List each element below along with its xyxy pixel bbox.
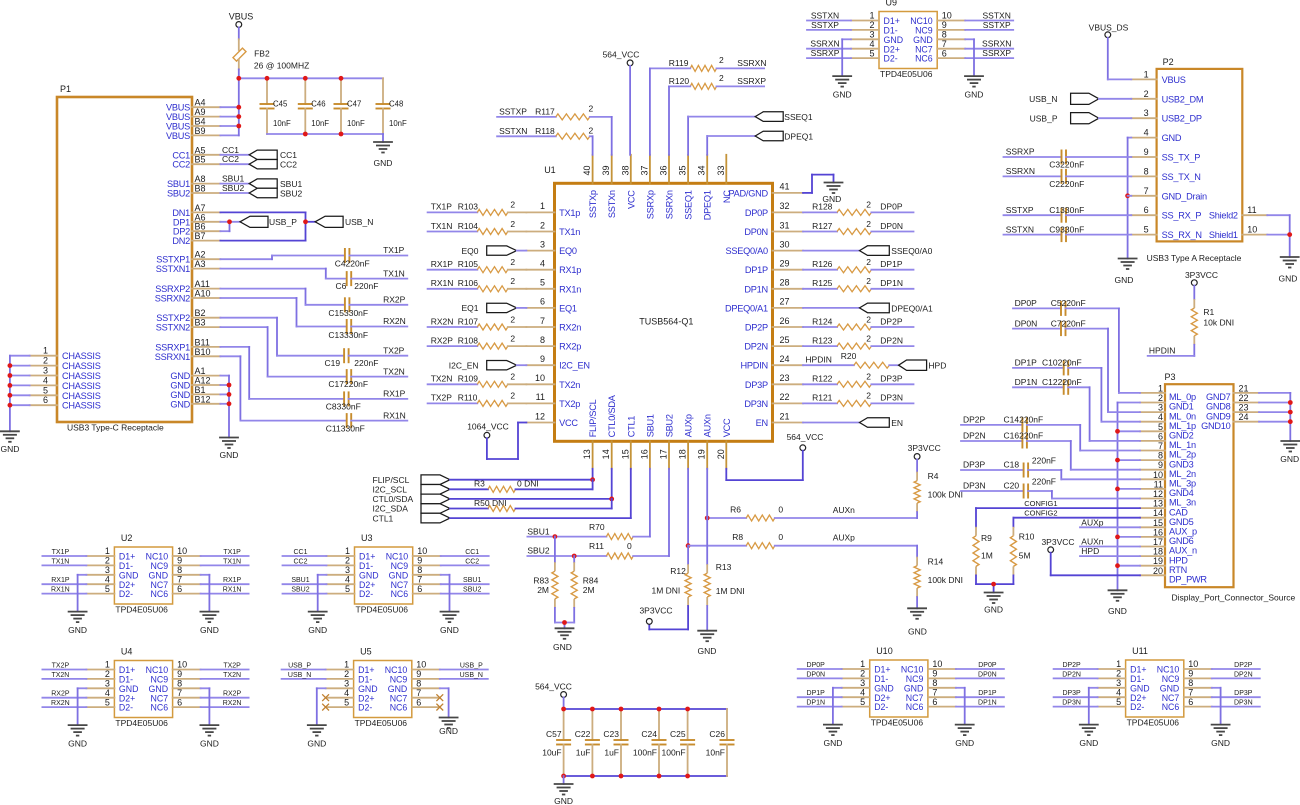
resistor R11 0 net SBU2 <box>589 469 669 559</box>
wire AUXn pin19 down <box>706 469 708 518</box>
svg-text:6: 6 <box>177 697 182 707</box>
resistor R20 net HPDIN to HPD port <box>803 351 899 368</box>
ic U10 TPD4E05U06 body <box>842 646 956 728</box>
wire P2 shields to GND <box>1267 215 1289 257</box>
svg-text:DP2N: DP2N <box>744 342 768 352</box>
svg-text:AUXn: AUXn <box>833 505 855 515</box>
svg-text:VCC: VCC <box>559 418 578 428</box>
svg-text:5: 5 <box>1116 697 1121 707</box>
svg-text:24: 24 <box>780 354 790 364</box>
svg-text:R11: R11 <box>589 541 604 551</box>
svg-text:5: 5 <box>105 697 110 707</box>
svg-text:R119: R119 <box>669 58 689 68</box>
U1 pin 7 RX2n <box>526 316 581 333</box>
ground R9 R10 <box>984 593 1004 615</box>
P1 pin 2 CHASSIS <box>30 356 101 372</box>
wire P2 pin7 GND_Drain <box>1128 195 1132 197</box>
svg-text:RTN: RTN <box>1169 565 1187 575</box>
svg-text:GND: GND <box>0 444 19 454</box>
svg-text:30: 30 <box>780 239 790 249</box>
svg-text:0: 0 <box>778 504 783 514</box>
svg-text:Shield2: Shield2 <box>1209 211 1238 221</box>
svg-text:GND: GND <box>68 739 87 749</box>
svg-text:0 DNI: 0 DNI <box>517 479 539 489</box>
svg-text:GND2: GND2 <box>1169 431 1194 441</box>
svg-text:DP1N: DP1N <box>806 700 825 707</box>
svg-text:DP0N: DP0N <box>880 221 903 231</box>
svg-text:GND: GND <box>965 90 984 100</box>
svg-text:TX1N: TX1N <box>223 558 241 565</box>
svg-text:ML_0n: ML_0n <box>1169 411 1196 421</box>
svg-text:R128: R128 <box>812 202 833 212</box>
svg-text:RX1P: RX1P <box>383 389 406 399</box>
wire U5 pin3 to GND <box>317 688 326 725</box>
svg-text:SSRXN: SSRXN <box>737 58 766 68</box>
port USB_P to P2 <box>1030 113 1132 124</box>
P1 pin B12 GND <box>170 394 220 409</box>
svg-text:SBU2: SBU2 <box>167 189 190 199</box>
svg-text:R83: R83 <box>533 575 549 585</box>
svg-text:D2-: D2- <box>1130 702 1144 712</box>
junction dots chassis bus <box>7 363 12 407</box>
capacitor C23 1uF <box>603 709 628 776</box>
svg-text:CC2: CC2 <box>280 160 297 170</box>
svg-text:TPD4E05U06: TPD4E05U06 <box>115 605 168 615</box>
svg-text:DPEQ1: DPEQ1 <box>703 190 713 220</box>
resistor R123 2 net DP2N <box>803 333 914 349</box>
junction dots P3 GND bus <box>1115 429 1120 568</box>
svg-text:C13330nF: C13330nF <box>328 330 368 340</box>
U1 pin 21 EN <box>756 411 803 428</box>
svg-text:CTL1: CTL1 <box>626 416 636 438</box>
svg-text:GND: GND <box>823 738 842 748</box>
port USB_P <box>240 216 297 227</box>
svg-text:CHASSIS: CHASSIS <box>62 361 101 371</box>
svg-text:SSRXP: SSRXP <box>811 48 840 58</box>
svg-text:USB2_DM: USB2_DM <box>1162 94 1204 104</box>
svg-text:R117: R117 <box>535 107 555 117</box>
svg-text:DP2N: DP2N <box>963 431 986 441</box>
U1 pin 18 AUXp <box>678 414 694 469</box>
P1 pin A1 GND <box>170 366 220 381</box>
capacitor C15 330nF net RX2P <box>220 289 407 318</box>
svg-text:C8330nF: C8330nF <box>326 402 361 412</box>
svg-text:22: 22 <box>780 392 790 402</box>
svg-text:DP0N: DP0N <box>978 671 997 678</box>
resistor R127 2 net DP0N <box>803 219 914 235</box>
svg-text:GND: GND <box>1114 275 1133 285</box>
svg-text:5M: 5M <box>1019 550 1031 560</box>
port HPD <box>899 360 947 371</box>
svg-text:2: 2 <box>719 73 724 83</box>
svg-text:RX1n: RX1n <box>559 284 581 294</box>
svg-text:VBUS: VBUS <box>229 11 254 21</box>
svg-text:HPDIN: HPDIN <box>741 361 768 371</box>
svg-text:NC6: NC6 <box>150 703 168 713</box>
svg-text:14: 14 <box>1153 508 1163 518</box>
svg-text:TX1N: TX1N <box>383 268 405 278</box>
svg-text:C15330nF: C15330nF <box>328 308 368 318</box>
P3 pin 21 GND7 <box>1206 383 1259 402</box>
svg-text:SSRXN2: SSRXN2 <box>155 294 190 304</box>
resistor R103 2 net TX1P <box>428 200 527 216</box>
U2 right net TX1N <box>201 558 249 565</box>
svg-text:6: 6 <box>43 395 48 405</box>
svg-text:13: 13 <box>582 449 592 459</box>
svg-text:HPDIN: HPDIN <box>1149 346 1175 356</box>
svg-text:1M DNI: 1M DNI <box>651 586 680 596</box>
U1 pin 28 DP1N <box>744 278 803 295</box>
P1 pin B8 SBU2 <box>167 184 220 199</box>
svg-text:2: 2 <box>1144 89 1149 99</box>
svg-text:2: 2 <box>866 200 871 210</box>
svg-text:ML_3p: ML_3p <box>1169 479 1196 489</box>
svg-text:GND: GND <box>170 399 190 409</box>
P1 pin B6 DP2 <box>173 222 221 237</box>
capacitor C17 220nF net TX2N <box>220 327 407 389</box>
ic U9 TPD4E05U06 body <box>851 0 965 79</box>
svg-text:TX2p: TX2p <box>559 399 580 409</box>
U1 pin 9 I2C_EN <box>526 354 589 371</box>
svg-text:CC2: CC2 <box>222 154 239 164</box>
svg-text:TX1p: TX1p <box>559 208 580 218</box>
svg-text:2M: 2M <box>537 585 549 595</box>
connector P3 DisplayPort body <box>1165 372 1296 603</box>
ground R13 <box>697 631 717 656</box>
svg-text:DP2N: DP2N <box>880 335 903 345</box>
power port 564_VCC top <box>603 50 640 66</box>
resistor R117 2 net SSTXP <box>497 104 612 155</box>
svg-text:3: 3 <box>1158 403 1163 413</box>
svg-text:DP0P: DP0P <box>880 202 903 212</box>
svg-text:HPD: HPD <box>1169 555 1188 565</box>
svg-text:15: 15 <box>1153 518 1163 528</box>
capacitor C46 10nF <box>298 78 330 134</box>
power port 564_VCC right <box>787 432 824 451</box>
svg-text:A3: A3 <box>195 259 206 269</box>
svg-text:RX1N: RX1N <box>223 587 242 594</box>
U3 left net CC2 <box>283 558 327 565</box>
P3 pin 4 ML_1p <box>1140 412 1196 431</box>
svg-text:31: 31 <box>780 220 790 230</box>
svg-text:14: 14 <box>601 449 611 459</box>
svg-text:SBU2: SBU2 <box>222 183 244 193</box>
U1 pin 35 SSEQ1 <box>678 155 694 220</box>
U1 pin 1 TX1p <box>526 201 580 218</box>
U1 pin 34 DPEQ1 <box>697 155 713 220</box>
svg-text:10nF: 10nF <box>273 119 291 128</box>
svg-text:3P3VCC: 3P3VCC <box>639 605 672 615</box>
port USB_N <box>315 216 373 227</box>
junction dot P2 GND_Drain <box>1125 193 1130 198</box>
ground P2 left <box>1114 259 1137 286</box>
svg-text:GND: GND <box>374 158 393 168</box>
svg-text:TX2P: TX2P <box>383 345 405 355</box>
U1 pin 41 PAD/GND <box>728 182 803 199</box>
svg-text:DP0P: DP0P <box>978 662 997 669</box>
U3 right net SBU2 <box>441 587 489 594</box>
svg-text:6: 6 <box>177 584 182 594</box>
svg-text:AUXp: AUXp <box>833 533 855 543</box>
svg-text:NC6: NC6 <box>906 702 924 712</box>
wire U9 pin8 to GND <box>965 39 974 76</box>
svg-text:SSTXN: SSTXN <box>499 126 527 136</box>
wire P3 shield gnds <box>1259 393 1290 441</box>
svg-text:RX2P: RX2P <box>51 691 70 698</box>
svg-text:ML_2p: ML_2p <box>1169 450 1196 460</box>
svg-text:RX1P: RX1P <box>431 259 454 269</box>
U3 right net CC1 <box>441 549 489 556</box>
svg-text:DP2N: DP2N <box>1234 671 1253 678</box>
svg-text:41: 41 <box>780 182 790 192</box>
U10 right net DP1N <box>956 700 1004 707</box>
svg-text:USB_P: USB_P <box>269 217 297 227</box>
ground U11 left <box>1079 725 1099 749</box>
svg-text:VBUS: VBUS <box>166 131 190 141</box>
svg-text:0: 0 <box>778 532 783 542</box>
svg-text:SSTXp: SSTXp <box>588 190 598 218</box>
net label DP1N <box>1015 377 1038 387</box>
svg-text:SS_TX_P: SS_TX_P <box>1162 153 1201 163</box>
svg-text:RX2N: RX2N <box>223 700 242 707</box>
svg-text:P3: P3 <box>1165 372 1176 382</box>
wire CONFIG2 <box>1013 509 1140 527</box>
U11 right net DP3P <box>1212 690 1260 697</box>
net label DP2N <box>963 431 986 441</box>
P2 pin 7 GND_Drain <box>1131 186 1207 202</box>
svg-text:SSRXP: SSRXP <box>982 48 1011 58</box>
U3 left net SBU1 <box>283 577 327 584</box>
wire U4 pin8 to GND <box>201 688 210 725</box>
junction dot USB_N <box>303 219 308 224</box>
svg-text:GND: GND <box>554 796 573 805</box>
U5 right net USB_N <box>440 672 488 679</box>
svg-text:R118: R118 <box>535 126 555 136</box>
svg-text:DP3N: DP3N <box>963 481 986 491</box>
connector P2 USB3 Type A Receptacle body <box>1147 57 1243 263</box>
ground U10 left <box>823 725 843 749</box>
svg-text:GND1: GND1 <box>1169 402 1194 412</box>
svg-text:ML_1n: ML_1n <box>1169 440 1196 450</box>
svg-text:17: 17 <box>1153 537 1163 547</box>
P3 pin 17 AUX_n <box>1140 537 1197 556</box>
svg-text:C14220nF: C14220nF <box>1004 415 1044 425</box>
svg-text:U11: U11 <box>1132 646 1148 656</box>
svg-text:2: 2 <box>510 372 515 382</box>
svg-text:RX1N: RX1N <box>431 278 454 288</box>
svg-text:DP3P: DP3P <box>1062 690 1081 697</box>
P3 pin 13 CAD <box>1140 499 1188 518</box>
svg-text:10k DNI: 10k DNI <box>1203 317 1234 327</box>
svg-text:SSEQ1: SSEQ1 <box>784 112 813 122</box>
wire U9 pin3 to GND <box>842 39 851 76</box>
svg-text:26 @ 100MHZ: 26 @ 100MHZ <box>254 60 309 70</box>
svg-text:C20: C20 <box>1004 481 1020 491</box>
P3 pin 5 GND2 <box>1140 422 1194 441</box>
svg-text:28: 28 <box>780 278 790 288</box>
svg-text:R14: R14 <box>928 557 944 567</box>
svg-text:1064_VCC: 1064_VCC <box>467 422 509 432</box>
U9 left net SSRXP <box>807 48 851 58</box>
svg-text:SSTXN1: SSTXN1 <box>156 264 190 274</box>
wire U10 pin8 to GND <box>956 688 965 725</box>
svg-text:3P3VCC: 3P3VCC <box>908 443 941 453</box>
capacitor C20 220nF net DP3N <box>961 476 1140 498</box>
svg-text:10nF: 10nF <box>389 119 407 128</box>
svg-text:DP1N: DP1N <box>1015 377 1038 387</box>
svg-text:3: 3 <box>1144 108 1149 118</box>
svg-text:29: 29 <box>780 259 790 269</box>
net label DP0P <box>1015 298 1038 308</box>
P3 pin 10 ML_3p <box>1140 470 1196 489</box>
svg-text:22: 22 <box>1239 393 1249 403</box>
wire P3 GND bus <box>1118 403 1141 591</box>
svg-text:32: 32 <box>780 201 790 211</box>
svg-text:C26: C26 <box>709 729 725 739</box>
svg-text:13: 13 <box>1153 499 1163 509</box>
wire AUXp pin18 down <box>687 469 689 546</box>
svg-text:1M: 1M <box>981 550 993 560</box>
svg-text:R1: R1 <box>1203 307 1214 317</box>
svg-text:2: 2 <box>866 257 871 267</box>
svg-text:2: 2 <box>540 220 545 230</box>
svg-text:GND: GND <box>1211 738 1230 748</box>
svg-text:9: 9 <box>1158 460 1163 470</box>
svg-text:C2220nF: C2220nF <box>1049 179 1084 189</box>
P2 pin 5 SS_RX_N <box>1131 225 1201 241</box>
port USB_N to P2 <box>1029 93 1131 104</box>
svg-text:TX1P: TX1P <box>52 549 70 556</box>
P3 pin 9 ML_2n <box>1140 460 1196 479</box>
P1 pin 3 CHASSIS <box>30 366 101 382</box>
resistor R84 2M <box>571 556 598 623</box>
svg-text:DP0N: DP0N <box>806 671 825 678</box>
U9 left net SSTXP <box>807 20 851 30</box>
svg-text:SSTXP: SSTXP <box>983 20 1011 30</box>
P3 pin 12 ML_3n <box>1140 489 1196 508</box>
wire USB_N net <box>220 212 315 240</box>
svg-text:I2C_EN: I2C_EN <box>449 360 479 370</box>
svg-text:SS_RX_N: SS_RX_N <box>1162 230 1202 240</box>
svg-text:C10220nF: C10220nF <box>1042 358 1082 368</box>
svg-text:NC6: NC6 <box>390 703 408 713</box>
capacitor C24 100nF <box>633 709 667 776</box>
svg-text:TPD4E05U06: TPD4E05U06 <box>356 605 409 615</box>
svg-text:GND: GND <box>955 738 974 748</box>
svg-text:5: 5 <box>105 584 110 594</box>
svg-text:DP2P: DP2P <box>963 415 986 425</box>
svg-text:GND: GND <box>68 625 87 635</box>
svg-text:EN: EN <box>756 418 768 428</box>
svg-text:DP0N: DP0N <box>744 227 768 237</box>
svg-text:SBU2: SBU2 <box>291 587 309 594</box>
svg-text:U2: U2 <box>121 533 133 543</box>
U1 pin 26 DP2P <box>745 316 803 333</box>
svg-text:C1330nF: C1330nF <box>1049 205 1084 215</box>
P3 pin 22 GND8 <box>1206 393 1259 412</box>
port SBU2 <box>249 188 302 198</box>
wire U5 pin8 to GND <box>440 688 449 717</box>
P2 pin 2 USB2_DM <box>1131 89 1203 105</box>
svg-text:TX2n: TX2n <box>559 380 580 390</box>
P1 pin A6 DP1 <box>173 212 221 227</box>
U2 right net RX1N <box>201 587 249 594</box>
U3 left net CC1 <box>283 549 327 556</box>
svg-text:C25: C25 <box>670 729 686 739</box>
wire C48 to GND <box>382 134 384 142</box>
svg-text:5: 5 <box>1144 225 1149 235</box>
svg-text:DP2P: DP2P <box>1062 662 1081 669</box>
svg-text:DP0P: DP0P <box>1015 298 1038 308</box>
svg-text:P2: P2 <box>1163 57 1174 67</box>
svg-text:16: 16 <box>639 449 649 459</box>
svg-text:U3: U3 <box>361 533 373 543</box>
svg-text:SS_TX_N: SS_TX_N <box>1162 172 1201 182</box>
svg-text:CC1: CC1 <box>293 549 307 556</box>
svg-text:16: 16 <box>1153 527 1163 537</box>
svg-text:USB_N: USB_N <box>288 672 311 679</box>
wire R83 R84 join <box>555 623 574 629</box>
svg-text:R123: R123 <box>812 335 833 345</box>
capacitor C9 330nF net SSTXN <box>1004 224 1132 242</box>
svg-text:10nF: 10nF <box>311 119 329 128</box>
wire U3 pin3 to GND <box>318 575 327 612</box>
svg-text:GND8: GND8 <box>1206 402 1231 412</box>
resistor R110 2 net TX2P <box>428 391 527 407</box>
svg-text:B7: B7 <box>195 231 206 241</box>
svg-text:A10: A10 <box>195 289 211 299</box>
svg-text:SSRXp: SSRXp <box>645 190 655 219</box>
svg-text:RX1p: RX1p <box>559 265 581 275</box>
U1 pin 6 EQ1 <box>526 297 576 314</box>
svg-text:TX1P: TX1P <box>223 549 241 556</box>
capacitor C3 220nF net SSRXP <box>1004 147 1132 170</box>
resistor R124 2 net DP2P <box>803 314 914 330</box>
U1 pin 25 DP2N <box>744 335 803 352</box>
wire FLIP/SCL to pin13 <box>450 469 593 480</box>
U1 pin 8 RX2p <box>526 335 581 352</box>
connector P1 USB3 Type-C Receptacle body <box>57 84 192 433</box>
svg-text:35: 35 <box>678 165 688 175</box>
svg-text:TX1P: TX1P <box>383 245 405 255</box>
svg-text:R120: R120 <box>669 76 690 86</box>
svg-text:R12: R12 <box>670 566 686 576</box>
svg-text:5: 5 <box>860 697 865 707</box>
capacitor C22 1uF <box>575 709 600 776</box>
ferrite bead FB2 <box>233 48 309 70</box>
svg-text:PAD/GND: PAD/GND <box>728 188 768 198</box>
svg-text:RX2n: RX2n <box>559 323 581 333</box>
wire cap bank to GND <box>563 776 565 784</box>
U4 right net RX2P <box>201 691 249 698</box>
svg-text:2: 2 <box>510 276 515 286</box>
svg-text:DN2: DN2 <box>172 236 190 246</box>
capacitor C26 10nF <box>706 709 735 776</box>
U9 left net SSTXN <box>807 11 851 21</box>
svg-text:C19: C19 <box>325 358 341 368</box>
wire U2 pin8 to GND <box>201 575 210 612</box>
svg-text:DP1N: DP1N <box>978 700 997 707</box>
wire P2 pin4 GND down <box>1128 138 1132 259</box>
svg-text:5: 5 <box>43 385 48 395</box>
svg-text:USB_N: USB_N <box>345 217 373 227</box>
svg-text:R103: R103 <box>458 202 479 212</box>
U1 pin 27 DPEQ0/A1 <box>725 297 803 314</box>
U1 pin 14 CTL0/SDA <box>601 394 617 469</box>
svg-text:CHASSIS: CHASSIS <box>62 371 101 381</box>
svg-text:SSTXP: SSTXP <box>1006 205 1034 215</box>
svg-text:RX1N: RX1N <box>51 587 70 594</box>
